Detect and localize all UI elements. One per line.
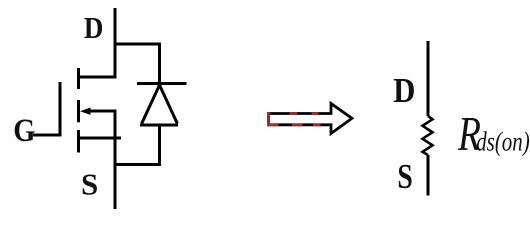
arrow: transformation block arrow (black outline): [269, 104, 353, 134]
diode D1 triangle (body diode): [142, 85, 178, 124]
svg-text:G: G: [13, 112, 35, 148]
svg-text:S: S: [81, 166, 98, 201]
arrow: red dash left edge: [267, 112, 270, 126]
arrow: red dashes top edge: [290, 112, 319, 115]
transistor Q1 channel segment top: [77, 68, 80, 89]
transistor Q1 channel segment bottom: [77, 130, 80, 153]
svg-text:D: D: [84, 11, 103, 45]
svg-text:D: D: [393, 72, 415, 110]
wire: resistor top lead: [427, 41, 430, 116]
wire: drain-to-diode horizontal: [114, 43, 162, 46]
wire: resistor bottom lead: [427, 155, 430, 196]
svg-text:ds(on): ds(on): [476, 127, 530, 157]
transistor Q1 channel segment middle: [77, 100, 80, 122]
wire: diode anode lead vertical: [158, 125, 161, 166]
wire: source lead vertical: [114, 110, 117, 210]
resistor Rds(on) zigzag: [423, 116, 433, 155]
svg-text:S: S: [397, 157, 412, 196]
diode D1 cathode bar: [137, 82, 187, 85]
wire: diode cathode lead vertical: [158, 44, 161, 84]
wire: drain-to-channel horizontal: [78, 76, 117, 79]
arrow: red dashes bottom edge: [267, 123, 320, 126]
transistor Q1 body arrow: [80, 108, 91, 115]
wire: body tie horizontal: [88, 110, 117, 113]
wire: source-to-channel horizontal: [78, 137, 121, 140]
transistor Q1 gate lead wire: [33, 134, 62, 137]
transistor Q1 gate plate: [59, 82, 62, 137]
wire: diode-to-source horizontal: [114, 163, 162, 166]
diode D1 anode bar: [140, 124, 178, 127]
wire: drain lead vertical: [114, 8, 117, 78]
